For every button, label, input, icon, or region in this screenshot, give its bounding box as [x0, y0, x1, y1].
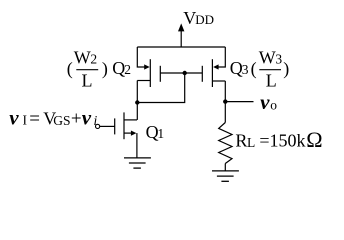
transistor Q1 — [100, 112, 137, 157]
wire: output node down to resistor — [224, 102, 226, 123]
svg-text:Q1: Q1 — [146, 122, 165, 142]
svg-text:(: ( — [67, 59, 73, 80]
wire: gate-to-gate — [160, 72, 202, 74]
svg-text:GS: GS — [53, 113, 70, 128]
node: gate-drain junction — [183, 71, 187, 75]
svg-text:Q3: Q3 — [230, 58, 249, 78]
wire: node down to Q1 drain — [136, 103, 138, 120]
label RL = 150k ohm — [235, 127, 322, 152]
svg-text:L: L — [247, 135, 255, 150]
input terminal circle — [96, 124, 100, 128]
node: output junction — [223, 99, 227, 103]
svg-text:Ω: Ω — [306, 127, 322, 152]
transistor Q3 — [202, 47, 225, 87]
svg-text:v: v — [260, 90, 270, 114]
VDD supply arrow — [178, 23, 184, 47]
svg-text:v: v — [82, 105, 92, 129]
svg-text:=150k: =150k — [259, 131, 305, 151]
resistor RL — [219, 123, 232, 164]
svg-text:L: L — [266, 70, 277, 90]
svg-text:(: ( — [251, 59, 257, 80]
svg-text:o: o — [270, 98, 277, 113]
wire: gate node down and left to Q2 drain — [137, 73, 184, 103]
svg-text:VDD: VDD — [183, 8, 214, 28]
wire: Q2 drain down to node — [136, 81, 138, 103]
svg-text:v: v — [9, 105, 19, 129]
svg-text:): ) — [283, 59, 289, 80]
node: Q2 drain / Q1 drain junction — [135, 100, 139, 104]
svg-text:L: L — [82, 70, 93, 90]
svg-text:+: + — [71, 108, 82, 129]
wire: output stub to vo — [225, 101, 253, 103]
label vo — [260, 90, 277, 114]
wire: VDD rail — [137, 46, 225, 48]
label input vI = VGS + vi — [9, 105, 97, 129]
svg-text:W3: W3 — [259, 47, 283, 67]
wire: Q3 drain down to output node — [224, 81, 226, 102]
label (W2/L) for Q2 — [67, 47, 108, 90]
transistor Q2 — [137, 47, 160, 87]
ground (under Q1) — [124, 158, 151, 168]
ground (under RL) — [212, 171, 239, 181]
svg-text:W2: W2 — [74, 47, 97, 67]
svg-text:): ) — [102, 59, 108, 80]
svg-text:i: i — [94, 113, 98, 128]
wire: resistor to ground — [224, 164, 226, 171]
svg-text:I: I — [23, 113, 28, 128]
svg-text:Q2: Q2 — [112, 58, 131, 78]
svg-text:R: R — [235, 131, 247, 151]
label (W3/L) for Q3 — [251, 47, 290, 90]
svg-text:=: = — [29, 108, 40, 129]
